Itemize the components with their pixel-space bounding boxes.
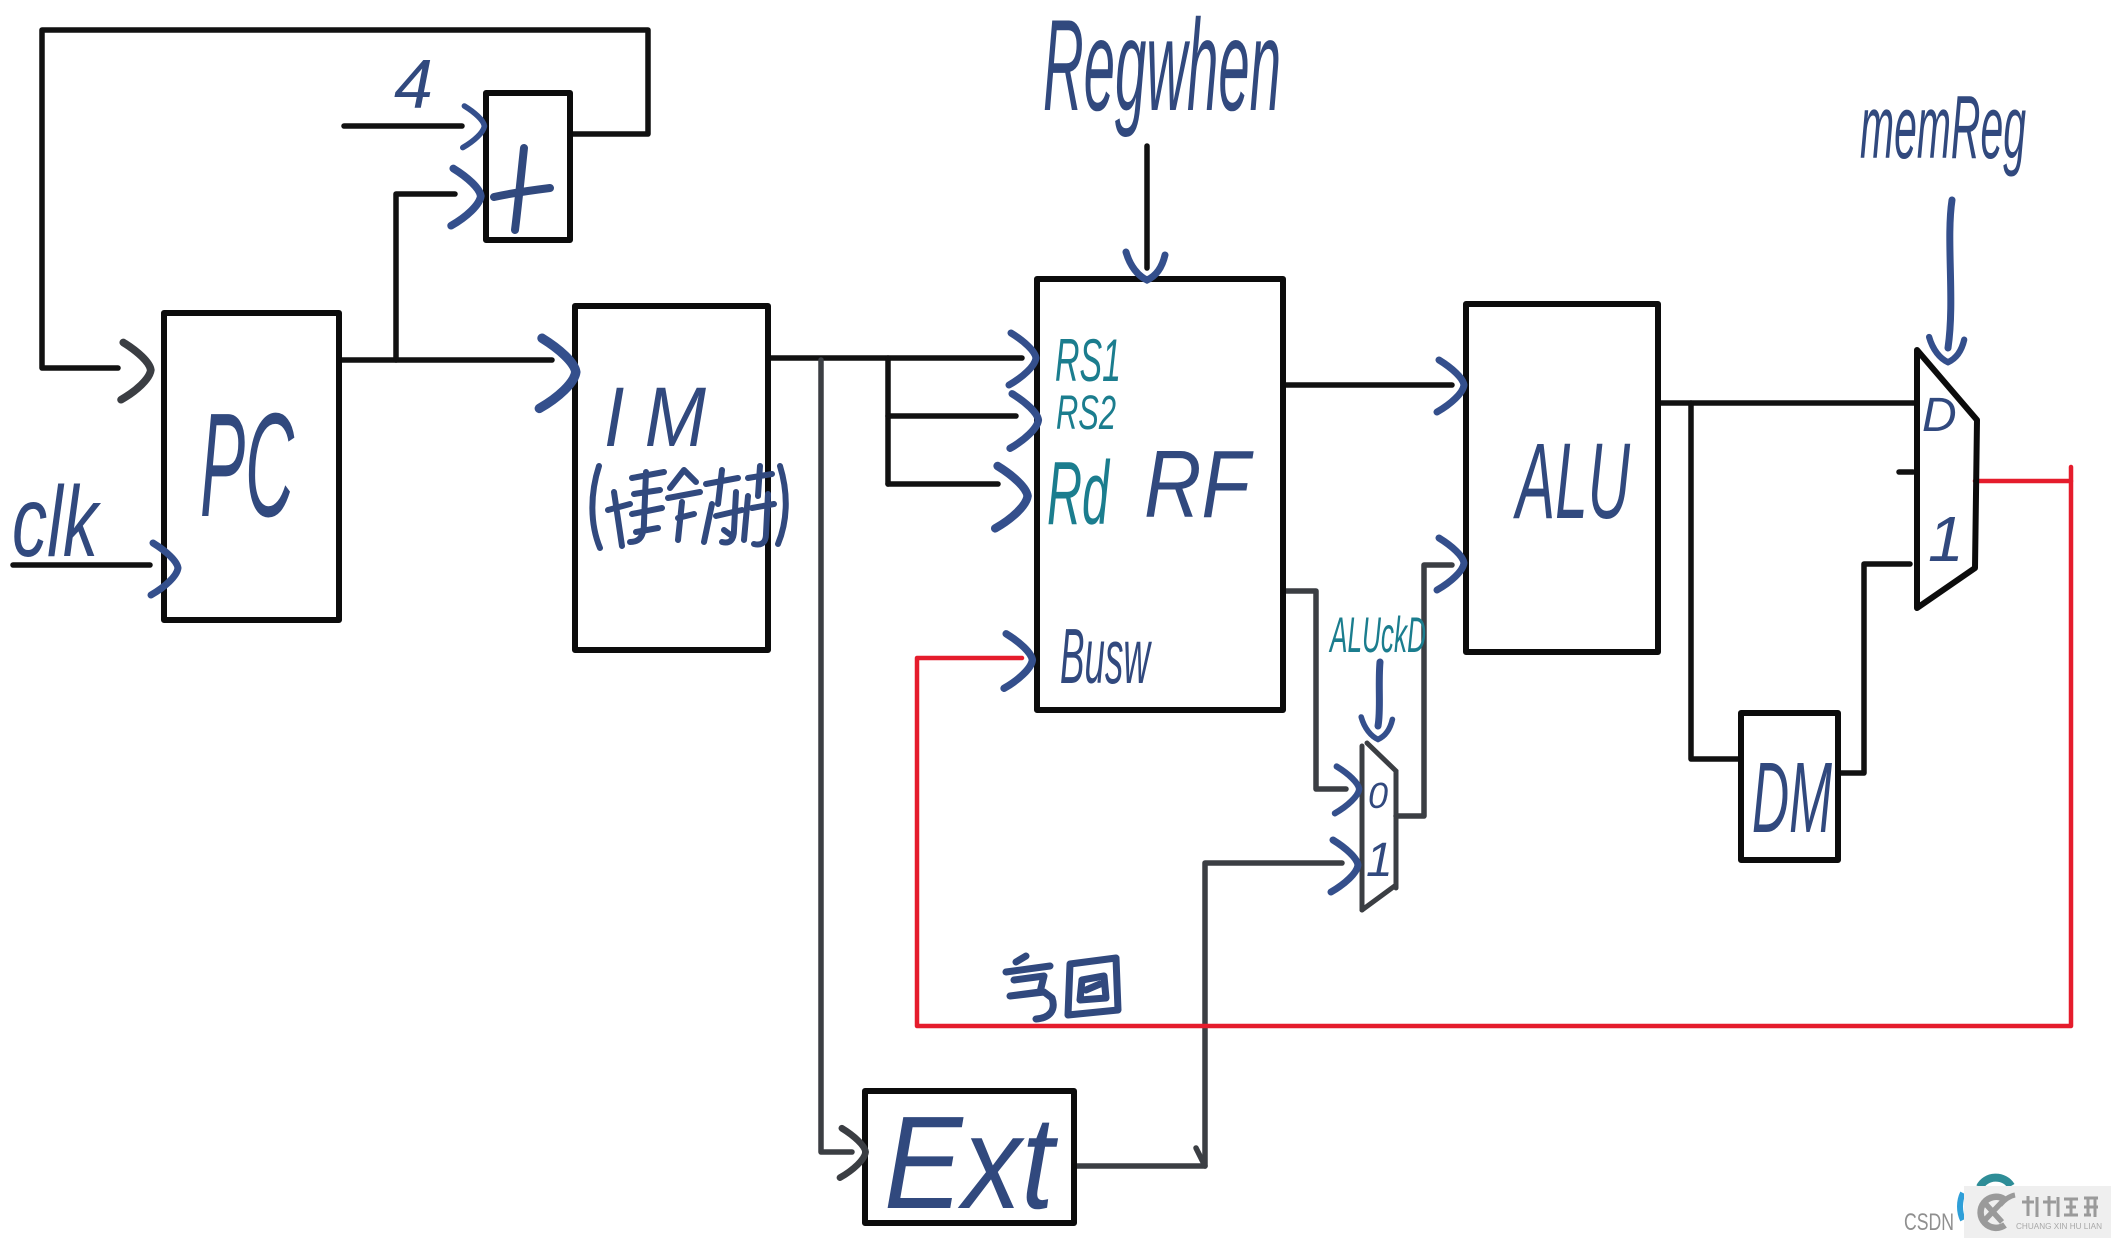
svg-text:I M: I M [604, 370, 706, 464]
svg-text:RS1: RS1 [1055, 327, 1121, 394]
svg-text:PC: PC [200, 383, 295, 548]
svg-text:CHUANG XIN HU LIAN: CHUANG XIN HU LIAN [2016, 1221, 2102, 1231]
svg-text:Regwhen: Regwhen [1043, 0, 1281, 138]
svg-text:1: 1 [1366, 834, 1393, 887]
svg-text:DM: DM [1752, 742, 1832, 854]
svg-text:ALU: ALU [1513, 420, 1631, 541]
svg-text:1: 1 [1928, 503, 1964, 575]
svg-text:0: 0 [1368, 775, 1388, 816]
svg-text:clk: clk [12, 466, 102, 578]
svg-text:RS2: RS2 [1056, 387, 1116, 440]
svg-text:memReg: memReg [1860, 78, 2026, 178]
svg-text:CSDN: CSDN [1904, 1209, 1954, 1236]
svg-text:ALUckD: ALUckD [1328, 607, 1426, 663]
svg-text:Ext: Ext [884, 1089, 1059, 1236]
svg-text:D: D [1922, 389, 1957, 442]
svg-text:RF: RF [1144, 431, 1254, 538]
svg-text:Busw: Busw [1060, 612, 1152, 700]
svg-text:4: 4 [394, 45, 433, 123]
svg-text:Rd: Rd [1047, 444, 1111, 544]
